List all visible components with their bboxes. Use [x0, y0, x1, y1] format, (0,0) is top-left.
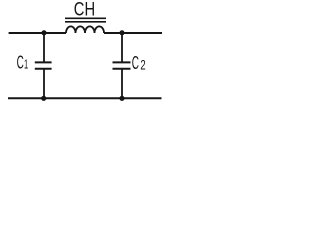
inductor CH coil	[66, 26, 104, 33]
wire C1 lower lead	[43, 69, 45, 99]
wire C2 lower lead	[121, 69, 123, 99]
top rail left wire	[9, 32, 66, 34]
capacitor C2 bottom plate	[113, 68, 131, 70]
node junction bottom-left	[41, 96, 46, 101]
svg-text:CH: CH	[74, 0, 95, 21]
bottom rail	[8, 97, 162, 99]
top rail right wire	[104, 32, 162, 34]
svg-text:2: 2	[140, 57, 145, 72]
svg-text:C: C	[132, 53, 139, 73]
wire C2 upper lead	[121, 33, 123, 62]
capacitor C1 bottom plate	[35, 68, 52, 70]
node junction top-right	[120, 30, 125, 35]
inductor core line 2	[65, 21, 106, 23]
label C2	[132, 53, 146, 73]
inductor core line 1	[65, 17, 106, 19]
svg-text:1: 1	[24, 57, 28, 72]
label C1	[17, 53, 29, 73]
node junction top-left	[42, 30, 47, 35]
wire C1 upper lead	[43, 33, 45, 62]
capacitor C1 top plate	[35, 61, 52, 63]
svg-text:C: C	[17, 53, 24, 73]
capacitor C2 top plate	[113, 61, 131, 63]
node junction bottom-right	[119, 96, 124, 101]
